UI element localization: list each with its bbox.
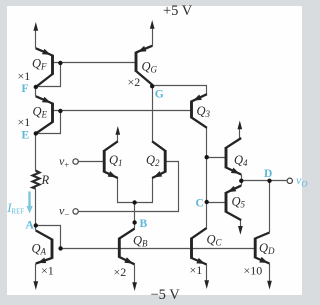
svg-text:C: C	[196, 198, 204, 210]
label Q_1	[109, 153, 123, 168]
terminal v- input	[73, 209, 78, 214]
wire resistor R to node A	[35, 189, 37, 226]
label v_O output	[296, 173, 307, 189]
Q_F base junction dot	[58, 61, 62, 65]
svg-text:×1: ×1	[18, 115, 31, 129]
label I_REF	[6, 200, 24, 216]
svg-text:v−: v−	[59, 204, 69, 220]
transistor Q_A (npn, x1)	[36, 231, 52, 264]
transistor Q_2 (npn, input pair)	[152, 141, 165, 178]
svg-text:×1: ×1	[41, 264, 54, 278]
wire output junction to Q_5 emitter	[241, 181, 243, 186]
wire Q_F base bus to Q_G base	[53, 62, 137, 64]
wire Q_E base-collector tie to node E	[36, 111, 61, 134]
wire node G down to Q_2 collector	[152, 86, 154, 142]
label Q_E	[33, 105, 48, 120]
node label F	[22, 83, 29, 95]
-5 V supply label	[151, 287, 181, 303]
svg-text:R: R	[41, 173, 50, 187]
svg-text:G: G	[155, 89, 164, 101]
wire v_minus to Q_2 base	[79, 162, 179, 212]
wire Q_F base-collector tie to node F	[36, 63, 61, 87]
wire output node to terminal	[242, 180, 287, 182]
svg-text:QF: QF	[32, 57, 47, 72]
node label C	[196, 198, 204, 210]
svg-text:QD: QD	[259, 241, 275, 256]
multiplier x2 of Q_B	[114, 265, 127, 279]
+5 V supply label	[163, 3, 193, 19]
label Q_G	[142, 60, 158, 75]
transistor Q_3 (pnp)	[192, 94, 207, 128]
-5V supply arrow below Q_5 collector	[238, 221, 243, 235]
wire node E to resistor R	[35, 134, 37, 171]
node label A	[26, 220, 35, 232]
+5V supply arrow above Q_4 collector	[237, 121, 242, 139]
transistor Q_5 (pnp)	[226, 186, 241, 221]
-5V supply arrow below Q_B	[132, 265, 137, 292]
transistor Q_C (npn, x1)	[192, 228, 207, 265]
svg-text:A: A	[26, 220, 35, 232]
svg-text:×1: ×1	[18, 69, 31, 83]
label Q_2	[146, 153, 160, 168]
label Q_C	[207, 233, 223, 248]
svg-text:Q3: Q3	[197, 104, 211, 119]
svg-text:QE: QE	[33, 105, 48, 120]
svg-text:QC: QC	[207, 233, 223, 248]
node B junction dot	[132, 220, 136, 224]
+5V supply arrow above Q_1 collector	[115, 126, 120, 142]
wire node D down to Q_D collector	[269, 181, 271, 233]
svg-text:×10: ×10	[244, 264, 263, 278]
-5V supply arrow below Q_A	[33, 264, 38, 291]
svg-text:QB: QB	[133, 234, 148, 249]
svg-text:QA: QA	[32, 242, 47, 257]
wire node C to Q_5 base	[207, 202, 227, 204]
transistor Q_4 (npn)	[226, 138, 241, 175]
wire node F to Q_E emitter	[35, 87, 37, 97]
transistor Q_F (pnp, x1)	[36, 48, 53, 87]
label Q_3	[197, 104, 211, 119]
wire node A to Q_A collector	[35, 226, 37, 231]
tail junction dot	[132, 200, 136, 204]
node D junction dot	[267, 179, 271, 183]
node C junction dot	[205, 200, 209, 204]
svg-text:D: D	[264, 168, 272, 180]
multiplier x2 of Q_G	[128, 75, 141, 89]
terminal v_O output	[287, 178, 292, 183]
label Q_A	[32, 242, 47, 257]
wire v_plus to Q_1 base	[79, 161, 105, 163]
transistor Q_G (pnp, x2)	[136, 46, 152, 85]
svg-text:B: B	[140, 218, 148, 230]
svg-text:E: E	[22, 130, 30, 142]
label resistor R	[41, 173, 50, 187]
node label D	[264, 168, 272, 180]
wire Q_4 base from node column	[207, 157, 227, 159]
svg-text:Q4: Q4	[234, 153, 248, 168]
wire Q_E base bus to Q_3 base	[53, 110, 192, 112]
multiplier x1 of Q_E	[18, 115, 31, 129]
node label B	[140, 218, 148, 230]
+5V supply arrow above Q_G	[150, 20, 155, 47]
svg-text:QG: QG	[142, 60, 158, 75]
svg-text:Q5: Q5	[232, 195, 246, 210]
label v- input	[59, 204, 69, 220]
wire node G to Q_3 emitter	[153, 86, 207, 95]
+5V supply arrow above Q_F	[33, 22, 38, 49]
label v+ input	[59, 154, 69, 170]
wire bottom base bus (Q_A to Q_D bases)	[61, 248, 256, 250]
svg-text:Q2: Q2	[146, 153, 160, 168]
terminal v+ input	[73, 159, 78, 164]
label Q_D	[259, 241, 275, 256]
transistor Q_1 (npn, input pair)	[104, 141, 118, 178]
Q_E base junction dot	[58, 109, 62, 113]
transistor Q_E (pnp, x1)	[36, 96, 53, 133]
transistor Q_B (npn, x2)	[119, 229, 134, 265]
multiplier x1 of Q_A	[41, 264, 54, 278]
Q_4 base junction dot	[205, 155, 209, 159]
svg-text:×2: ×2	[114, 265, 127, 279]
svg-text:F: F	[22, 83, 29, 95]
node label E	[22, 130, 30, 142]
svg-text:+5 V: +5 V	[163, 3, 193, 19]
wire Q_1 emitter to tail junction	[118, 178, 135, 203]
Q_A base junction dot	[58, 246, 62, 250]
label Q_F	[32, 57, 47, 72]
wire Q_2 emitter to tail junction	[135, 178, 153, 203]
svg-text:×2: ×2	[128, 75, 141, 89]
label Q_5	[232, 195, 246, 210]
node F junction dot	[34, 85, 38, 89]
label Q_B	[133, 234, 148, 249]
-5V supply arrow below Q_C	[204, 265, 209, 290]
wire Q_4 emitter to output junction	[241, 175, 243, 181]
multiplier x10 of Q_D	[244, 264, 263, 278]
svg-text:vO: vO	[296, 173, 307, 189]
node A junction dot	[34, 223, 38, 227]
-5V supply arrow below Q_D	[267, 264, 272, 290]
label Q_4	[234, 153, 248, 168]
node G junction dot	[150, 84, 154, 88]
wire Q_3 collector down to Q_C collector	[206, 128, 208, 228]
svg-text:−5 V: −5 V	[151, 287, 181, 303]
wire node A to bottom base bus	[36, 226, 61, 249]
svg-text:Q1: Q1	[109, 153, 123, 168]
current I_REF arrow	[27, 192, 33, 214]
multiplier x1 of Q_F	[18, 69, 31, 83]
wire tail junction to node B and Q_B collector	[134, 203, 136, 229]
transistor Q_D (npn, x10)	[255, 233, 269, 264]
svg-text:IREF: IREF	[6, 200, 24, 216]
node label G	[155, 89, 164, 101]
svg-text:v+: v+	[59, 154, 69, 170]
node E junction dot	[34, 131, 38, 135]
output junction dot	[239, 179, 243, 183]
svg-text:×1: ×1	[190, 263, 203, 277]
resistor R	[33, 171, 40, 189]
multiplier x1 of Q_C	[190, 263, 203, 277]
